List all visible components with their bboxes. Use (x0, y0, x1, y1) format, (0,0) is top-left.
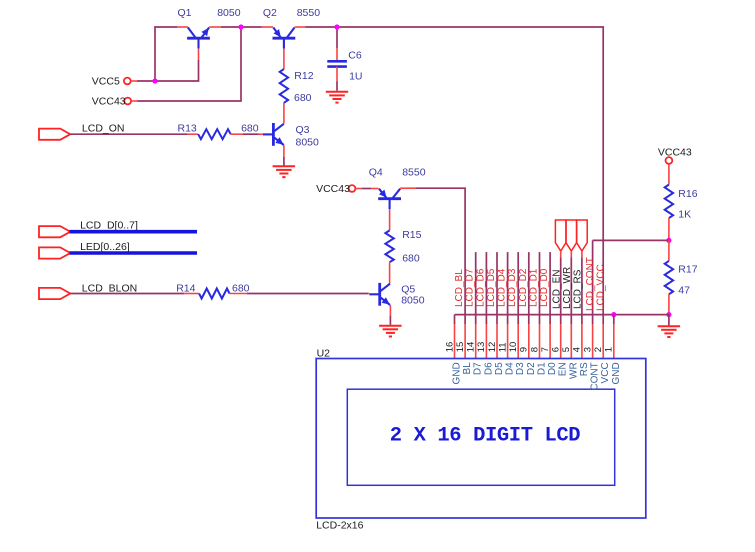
wire net LCD_D2 column pin 9 (528, 252, 530, 324)
svg-text:8050: 8050 (217, 7, 241, 19)
transistor Q4 (378, 197, 401, 200)
wire C6 to ground (336, 82, 338, 91)
wire top rail Q1 emitter red lead (209, 26, 221, 28)
LCD module U2 outer box (316, 359, 646, 519)
svg-text:R15: R15 (402, 229, 421, 241)
power port VCC5 (124, 78, 131, 85)
svg-text:GND: GND (611, 362, 622, 384)
wire LCD_ON to R13 (70, 133, 187, 135)
wire red lead from Q2 collector (295, 26, 306, 28)
wire net LCD_D4 column pin 11 (507, 252, 509, 324)
wire net LCD_D3 column pin 10 (517, 252, 519, 324)
svg-text:8: 8 (529, 347, 540, 352)
wire GND red pin lead pin 16 (454, 324, 456, 359)
wire VCC43 red stub (131, 100, 137, 102)
svg-text:1: 1 (604, 347, 615, 352)
svg-text:VCC5: VCC5 (92, 76, 120, 88)
node junction VCC5 (152, 78, 157, 83)
svg-text:LCD_BLON: LCD_BLON (82, 282, 137, 294)
svg-text:47: 47 (678, 284, 690, 296)
svg-text:D6: D6 (483, 362, 494, 375)
svg-text:LCD_D2: LCD_D2 (518, 268, 529, 307)
svg-text:LCD_WR: LCD_WR (562, 267, 573, 309)
wire Q5 emitter to ground (389, 316, 391, 325)
bus port LCD_D[0..7] (39, 226, 70, 237)
wire Q1 base to VCC5 node (137, 60, 199, 81)
wire VCC43 to top rail (138, 27, 242, 101)
svg-text:7: 7 (540, 347, 551, 352)
capacitor C6 red lead bottom (336, 67, 338, 82)
wire LCD_WR red stub (570, 251, 572, 257)
svg-text:LCD_D6: LCD_D6 (475, 268, 486, 307)
svg-text:Q4: Q4 (369, 167, 383, 179)
node junction GND net at R17 (666, 312, 671, 317)
svg-text:LCD_CONT: LCD_CONT (585, 257, 596, 311)
svg-text:U2: U2 (317, 347, 331, 359)
ground for Q3 (273, 165, 296, 167)
wire VCC5 red stub (131, 80, 137, 82)
wire LCD_CONT net horizontal (593, 239, 669, 241)
wire net LCD_RS column pin 4 (581, 257, 583, 324)
svg-text:680: 680 (241, 122, 259, 134)
svg-text:680: 680 (232, 282, 250, 294)
input port LCD_BLON (39, 288, 70, 299)
svg-text:D4: D4 (505, 362, 516, 375)
svg-text:LCD_EN: LCD_EN (552, 270, 563, 309)
port LCD_EN pentagon (555, 220, 566, 251)
wire R17 bottom red lead (668, 294, 670, 314)
svg-text:2 X 16 DIGIT LCD: 2 X 16 DIGIT LCD (390, 425, 581, 448)
wire Q2 base red lead to R12 (283, 49, 285, 70)
node junction C6 on rail (334, 24, 339, 29)
svg-text:RS: RS (579, 362, 590, 376)
svg-text:C6: C6 (348, 50, 362, 62)
wire GND net horizontal pin16 to R17 (455, 314, 669, 316)
svg-text:LCD_D0: LCD_D0 (539, 268, 550, 307)
svg-text:LCD_ON: LCD_ON (82, 122, 125, 134)
node junction GND pin 1 (611, 312, 616, 317)
svg-text:VCC: VCC (600, 362, 611, 383)
svg-text:13: 13 (476, 342, 487, 353)
svg-text:D5: D5 (494, 362, 505, 375)
svg-text:5: 5 (561, 347, 572, 352)
svg-text:3: 3 (582, 347, 593, 352)
wire net LCD_D0 column pin 7 (549, 252, 551, 324)
svg-text:D0: D0 (547, 362, 558, 375)
svg-text:LCD_BL: LCD_BL (454, 269, 465, 307)
wire top rail red lead into Q1 collector (177, 26, 188, 28)
svg-text:LCD_D1: LCD_D1 (529, 268, 540, 307)
wire top rail from Q2 collector to LCD VCC pin corner (306, 27, 604, 324)
svg-text:CONT: CONT (590, 362, 601, 390)
svg-text:WR: WR (568, 362, 579, 379)
port LCD_WR pentagon (566, 220, 577, 251)
wire net LCD_EN column pin 6 (560, 257, 562, 324)
power port VCC43 right (666, 157, 673, 164)
wire R13 left red lead (187, 133, 198, 135)
wire Q3 base red lead (259, 133, 263, 135)
wire Q1 base red lead (198, 49, 200, 60)
svg-text:LCD_VCC: LCD_VCC (595, 264, 606, 311)
svg-text:BL: BL (462, 362, 473, 375)
svg-text:1K: 1K (678, 209, 691, 221)
wire R15 bottom red lead to Q5 collector (389, 262, 391, 283)
LCD display inner box (347, 389, 614, 485)
wire Q4 emitter red lead (371, 188, 379, 190)
resistor R16 (665, 185, 673, 219)
svg-text:2: 2 (593, 347, 604, 352)
wire LCD_CONT red pin lead pin 3 (592, 324, 594, 359)
power port VCC43 at Q4 (349, 185, 356, 192)
wire Q3 emitter to ground (283, 157, 285, 166)
svg-text:R14: R14 (176, 282, 195, 294)
input port LCD_ON (39, 129, 70, 140)
ground for C6 (326, 91, 348, 93)
wire GND pin 16 column (454, 315, 456, 324)
node VCC5 rail corner wire (155, 27, 177, 81)
power port VCC43 left (124, 98, 131, 105)
ground for R17 (658, 325, 681, 327)
wire LCD BL red pin lead pin 15 (464, 324, 466, 359)
bus port LED[0..26] (39, 247, 70, 258)
svg-text:LCD_D3: LCD_D3 (507, 268, 518, 307)
resistor R15 (385, 230, 393, 262)
svg-text:VCC43: VCC43 (316, 183, 350, 195)
svg-text:680: 680 (294, 92, 312, 104)
svg-text:1U: 1U (349, 71, 362, 83)
wire Q4 collector red lead (400, 187, 415, 189)
node junction VCC43 on rail (238, 24, 243, 29)
svg-text:D3: D3 (515, 362, 526, 375)
wire red lead into Q2 emitter (262, 26, 274, 28)
transistor Q5 (378, 283, 381, 306)
svg-text:LCD_D5: LCD_D5 (486, 268, 497, 307)
svg-text:D2: D2 (526, 362, 537, 375)
svg-text:8550: 8550 (402, 167, 426, 179)
wire R17 to ground (668, 315, 670, 326)
wire net LCD_WR column pin 5 (570, 257, 572, 324)
wire net LCD_D5 column pin 12 (496, 252, 498, 324)
svg-text:6: 6 (551, 347, 562, 352)
ground for Q5 (379, 325, 402, 327)
svg-text:EN: EN (558, 362, 569, 376)
resistor R14 (199, 289, 229, 299)
svg-text:R13: R13 (178, 122, 197, 134)
svg-text:15: 15 (455, 342, 466, 353)
svg-text:VCC43: VCC43 (92, 96, 126, 108)
wire Q4 base red lead to R15 (389, 209, 391, 230)
svg-text:Q2: Q2 (263, 7, 277, 19)
wire Q3 emitter red lead (283, 145, 285, 157)
svg-text:Q3: Q3 (296, 124, 310, 136)
svg-text:D7: D7 (473, 362, 484, 375)
svg-text:D1: D1 (537, 362, 548, 375)
svg-text:8050: 8050 (296, 136, 320, 148)
svg-text:LCD-2x16: LCD-2x16 (316, 519, 363, 531)
svg-text:R12: R12 (294, 70, 313, 82)
svg-text:LCD_D4: LCD_D4 (497, 268, 508, 307)
wire R14 left red lead (184, 293, 199, 295)
svg-text:R17: R17 (678, 264, 697, 276)
wire Q5 emitter red lead (389, 305, 391, 316)
transistor Q2 (273, 37, 296, 40)
svg-text:8550: 8550 (297, 7, 321, 19)
capacitor C6 red lead top (336, 48, 338, 60)
wire Q4 collector to LCD_BL column (416, 188, 466, 324)
wire LCD_RS red stub (581, 251, 583, 257)
svg-text:680: 680 (402, 252, 420, 264)
node junction R16 R17 (666, 238, 671, 243)
wire GND red pin lead pin 1 (613, 324, 615, 359)
wire VCC43 to R16 red lead (668, 164, 670, 185)
wire R13 to Q3 base (243, 133, 259, 135)
svg-text:LCD_D7: LCD_D7 (465, 268, 476, 307)
transistor Q1 (187, 37, 210, 40)
port LCD_RS pentagon (577, 220, 588, 251)
svg-text:16: 16 (444, 342, 455, 353)
wire R16 bottom red lead (668, 218, 670, 240)
wire VCC43 red stub at Q4 (355, 188, 362, 190)
wire R12 bottom red lead to Q3 collector (283, 103, 285, 124)
wire net LCD_D6 column pin 13 (485, 252, 487, 324)
wire LCD_EN red stub (560, 251, 562, 257)
wire LCD_VCC red pin lead pin 2 (602, 324, 604, 359)
bus LCD_D[0..7] (70, 230, 198, 234)
svg-text:LCD_RS: LCD_RS (573, 269, 584, 309)
capacitor C6 top wire (336, 27, 338, 48)
wire net LCD_D1 column pin 8 (539, 252, 541, 324)
svg-text:10: 10 (508, 342, 519, 353)
svg-text:LCD_D[0..7]: LCD_D[0..7] (80, 219, 138, 231)
wire R14 right red lead (230, 293, 248, 295)
svg-text:Q1: Q1 (178, 7, 192, 19)
svg-text:14: 14 (466, 342, 477, 353)
wire R14 to Q5 base (247, 293, 368, 295)
wire Q5 base red lead (368, 293, 369, 295)
wire net LCD_D7 column pin 14 (475, 252, 477, 324)
svg-text:R16: R16 (678, 188, 697, 200)
resistor R17 (665, 261, 673, 294)
wire LCD_CONT vertical to pin 3 (592, 240, 594, 324)
svg-text:GND: GND (452, 362, 463, 384)
wire R17 top red lead (668, 240, 670, 261)
wire top rail Q1 emitter to VCC43 junction (221, 26, 262, 28)
wire VCC43 to Q4 emitter (362, 188, 371, 190)
svg-text:9: 9 (519, 347, 530, 352)
svg-text:VCC43: VCC43 (658, 146, 692, 158)
svg-text:8050: 8050 (401, 295, 425, 307)
transistor Q3 (272, 123, 275, 146)
svg-text:4: 4 (572, 347, 583, 352)
svg-text:LED[0..26]: LED[0..26] (80, 241, 130, 253)
wire LCD_BLON to R14 (70, 293, 184, 295)
svg-text:11: 11 (497, 342, 508, 352)
capacitor C6 (327, 60, 347, 63)
wire R13 right red lead (231, 133, 243, 135)
bus LED[0..26] (70, 251, 198, 255)
svg-text:12: 12 (487, 342, 498, 353)
resistor R12 (280, 69, 288, 103)
resistor R13 (198, 129, 231, 139)
wire GND pin 1 column (613, 315, 615, 324)
